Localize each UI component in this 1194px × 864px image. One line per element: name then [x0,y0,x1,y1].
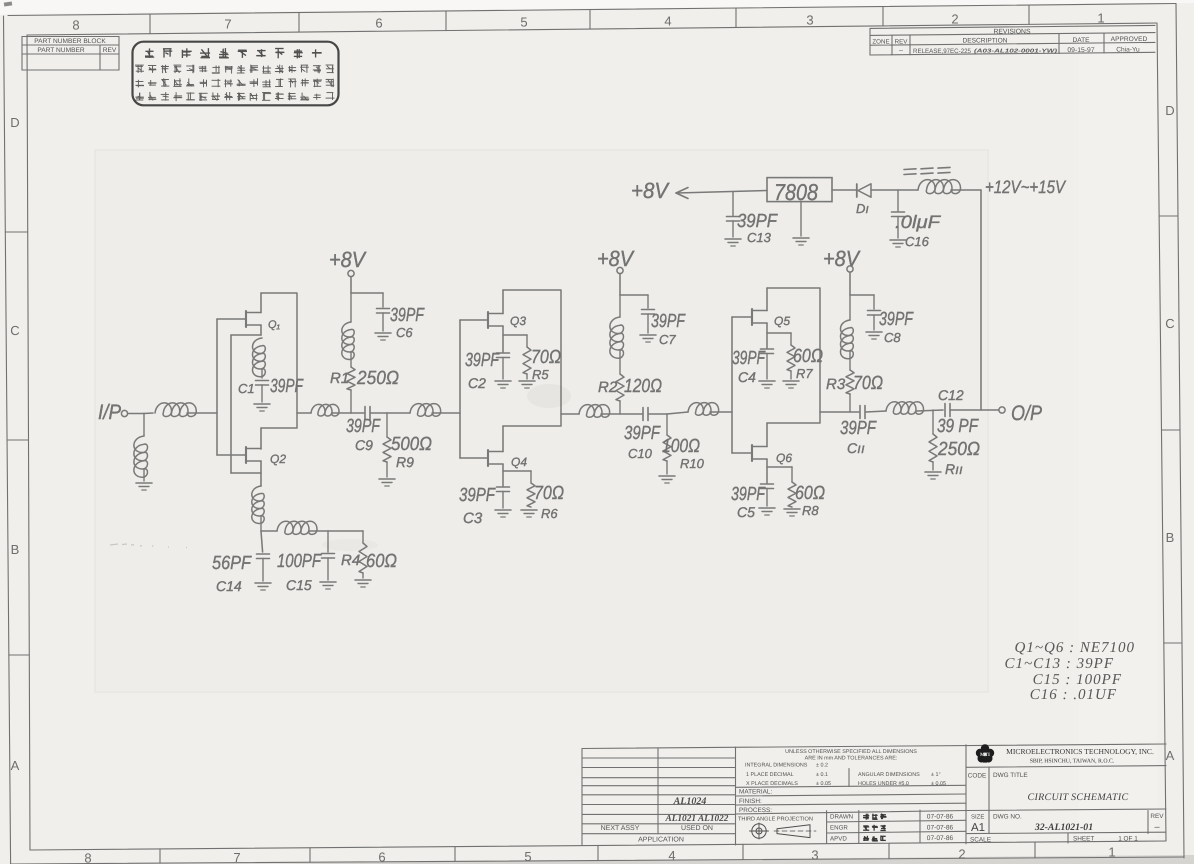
svg-text:+8V: +8V [329,247,367,272]
stage-1 feedback box [261,293,297,428]
svg-text:Q₁: Q₁ [268,319,281,331]
svg-text:70Ω: 70Ω [534,483,564,504]
name stamp apvd (CJK) [863,836,869,841]
capacitor C16 .01uF [897,190,899,211]
capacitor C7 39PF [642,309,655,311]
svg-text:R6: R6 [541,506,558,521]
inductor Q2 source [252,486,264,524]
+8V terminal stage 2 [617,267,623,273]
sheet outer border [8,4,1176,16]
ground for C4 [759,380,775,382]
svg-text:INTEGRAL DIMENSIONS: INTEGRAL DIMENSIONS [745,763,808,769]
svg-text:± 0.1: ± 0.1 [816,772,828,778]
wire: coil to R11 node [917,410,943,411]
svg-text:7: 7 [224,17,231,32]
capacitor C13 39PF [732,192,734,216]
transistor Q3 [487,312,489,328]
wire: to C15/R4 [309,530,363,532]
svg-text:I/P: I/P [98,401,121,424]
svg-text:C12: C12 [938,387,964,403]
svg-text:Rıı: Rıı [945,461,963,477]
svg-text:Q4: Q4 [511,455,527,469]
wire: +8V stage3 down / stub to C8 [849,272,851,295]
svg-text:CIRCUIT SCHEMATIC: CIRCUIT SCHEMATIC [1028,792,1129,803]
svg-text:C5: C5 [737,504,755,520]
svg-text:3: 3 [811,848,818,863]
resistor R10 100ohm [666,414,668,435]
part number block table [22,36,119,38]
svg-text:C2: C2 [468,375,486,391]
svg-text:70Ω: 70Ω [531,347,561,368]
wire: Q4 drain to box bottom [502,426,504,452]
svg-text:DWG TITLE: DWG TITLE [993,772,1028,779]
capacitor C14 56PF [257,553,270,555]
ground for C5 [759,507,775,509]
svg-text:CODE: CODE [968,773,986,780]
svg-text:39PF: 39PF [651,311,686,332]
title block right: company section [965,745,967,844]
svg-text:THIRD ANGLE PROJECTION: THIRD ANGLE PROJECTION [738,817,813,823]
capacitor C15 100PF [327,531,329,552]
svg-text:09-15-97: 09-15-97 [1067,47,1094,54]
svg-text:3: 3 [806,13,813,28]
svg-text:SCALE: SCALE [970,836,991,843]
wire: C9 to R9 node [371,412,388,414]
wire: Q6 source down [766,459,768,483]
ground for C6 [375,332,391,334]
wire: Q3 source node [502,326,504,352]
transistor Q6 [751,445,753,461]
svg-text:70Ω: 70Ω [853,373,883,394]
wire: C10 to R10 node [649,413,668,415]
series inductor stage1 out [311,404,339,416]
svg-text:APPROVED: APPROVED [1111,36,1148,43]
zone ticks bottom edge [159,849,161,863]
wire: gate bus stage 3 [731,317,733,453]
svg-text:R3: R3 [826,376,846,393]
svg-text:60Ω: 60Ω [793,346,823,367]
wire: +8V down / stub to C6 [350,277,352,293]
svg-text:4: 4 [664,14,671,29]
O/P terminal [999,407,1005,413]
svg-text:REVISIONS: REVISIONS [993,29,1030,36]
capacitor C2 39PF [497,352,510,354]
wire: Q2 drain to box bottom [260,428,262,449]
resistor R7 60ohm [767,332,791,334]
svg-text:ENGR: ENGR [830,825,848,832]
transistor Q4 [487,450,489,466]
svg-text:1 OF 1: 1 OF 1 [1118,835,1138,842]
scan: gray strip below sheet bottom edge [0,855,1194,864]
svg-text:APVD: APVD [830,835,847,842]
svg-text:100PF: 100PF [277,551,322,572]
ground for 7808 [800,202,802,236]
wire: +12V rail down to output [980,190,982,410]
svg-text:1: 1 [1097,11,1104,26]
svg-text:R4: R4 [341,552,360,569]
wire: Q4 source down [502,464,504,486]
svg-text:6: 6 [375,16,382,31]
svg-text:ZONE: ZONE [872,39,889,46]
svg-text:5: 5 [524,849,531,864]
resistor R8 60ohm [767,466,792,468]
resistor R9 500ohm [386,413,388,437]
svg-text:R8: R8 [802,503,819,518]
ground for R9 [379,478,395,480]
capacitor C11 39PF series [859,406,861,419]
series inductor stage2 out [579,405,610,418]
wire: gate bus stage 2 [459,320,461,458]
svg-text:C15: C15 [286,577,312,593]
stage-3 box [767,288,820,423]
series inductor input line [144,412,153,415]
svg-text:SHEET: SHEET [1073,836,1094,843]
svg-text:C: C [10,323,19,338]
title block: drawn/engr/apvd table [826,811,828,844]
svg-text:Q6: Q6 [776,451,792,465]
svg-text:C1~C13 : 39PF: C1~C13 : 39PF [1005,656,1114,672]
stamp text line 2 (CJK) [135,65,144,73]
svg-text:B: B [1166,530,1175,545]
resistor R1 250ohm [350,352,352,367]
ground for R8 [784,508,800,510]
ground for input shunt inductor [136,482,152,484]
svg-text:NEXT ASSY: NEXT ASSY [601,825,640,832]
svg-text:C15 : 100PF: C15 : 100PF [1033,672,1122,688]
svg-text:8: 8 [72,18,79,33]
stage-2 box [503,290,561,426]
svg-text:UNLESS OTHERWISE SPECIFIED ALL: UNLESS OTHERWISE SPECIFIED ALL DIMENSION… [785,749,917,755]
wire: C11 to coil [866,411,886,412]
svg-text:SIZE: SIZE [971,814,984,821]
svg-text:AL1024: AL1024 [673,796,707,807]
svg-text:500Ω: 500Ω [391,434,432,455]
inductor +8V feed stage 3 [849,295,851,320]
inductor power line [918,180,961,194]
svg-text:REV: REV [895,38,909,45]
ground for C7 [640,334,656,336]
wire: +8V rail to 7808 [677,191,767,194]
zone ticks right edge [1159,215,1178,217]
wire: gate bus stage 1 [216,319,218,455]
svg-text:C7: C7 [659,332,676,347]
svg-text:39PF: 39PF [840,418,877,439]
ground for C13 [725,238,741,240]
MTI logo [976,744,994,762]
ground for C1 [254,403,270,405]
inductor +8V feed stage 2 [619,295,621,317]
capacitor C4 39PF [761,348,774,350]
svg-text:2: 2 [951,12,958,27]
svg-text:MTI: MTI [980,752,990,758]
svg-text:C3: C3 [463,510,483,527]
svg-text:R2: R2 [598,379,618,396]
svg-text:–: – [899,48,903,55]
svg-text:D: D [10,115,19,130]
svg-text:C16: C16 [905,234,930,249]
stamp text line 4 (CJK) [135,93,143,101]
series inductor to stage 3 [667,412,688,414]
svg-text:5: 5 [520,15,527,30]
capacitor C5 39PF [761,483,774,485]
svg-text:C6: C6 [396,325,413,340]
stamp title line (10 CJK glyphs) [145,48,154,58]
capacitor C9 39PF series [364,407,366,420]
svg-text:SBIP, HSINCHU, TAIWAN, R.O.: SBIP, HSINCHU, TAIWAN, R.O.C. [1030,759,1115,765]
transistor Q5 [751,309,753,325]
capacitor C10 39PF series [642,408,644,421]
svg-text:C1: C1 [238,381,255,396]
svg-text:DRAWN: DRAWN [830,814,853,821]
svg-text:250Ω: 250Ω [937,439,980,460]
voltage regulator 7808 [767,178,832,202]
svg-text:39PF: 39PF [731,484,766,505]
svg-text:56PF: 56PF [212,553,252,574]
ground for R4 [355,579,371,581]
wire: Q5 source node [766,323,768,348]
wire: Q5 drain to box top [766,288,768,311]
wire: source tie line Q1-Q2 [230,335,232,473]
wire: D1 to C16 node [871,189,918,191]
wire: Q6 drain to box bottom [766,423,768,447]
svg-text:39PF: 39PF [459,485,496,506]
svg-text:+8V: +8V [597,246,635,271]
svg-text:X PLACE DECIMALS: X PLACE DECIMALS [746,781,798,787]
svg-text:60Ω: 60Ω [795,483,825,504]
resistor R6 70ohm [503,470,531,472]
svg-text:39PF: 39PF [732,348,766,369]
wire: Q1 drain to box top [260,293,262,313]
svg-text:C14: C14 [216,578,242,594]
ground for R7 [783,380,799,382]
svg-text:(A03-AL102-0001-YW): (A03-AL102-0001-YW) [974,48,1057,55]
svg-text:39PF: 39PF [737,211,778,232]
ground for C16 [890,239,906,241]
svg-text:C: C [1165,316,1174,331]
capacitor C1 39PF [256,380,269,382]
svg-text:C16 : .01UF: C16 : .01UF [1030,687,1117,703]
wire: +8V stage2 down / stub to C7 [619,274,621,295]
svg-text:4: 4 [668,848,675,863]
faint pencil smudge marks left [110,544,187,548]
transistor Q1 [245,311,247,327]
zone ticks top edge [149,14,151,34]
diode D1 [856,184,858,197]
ground for C14 [255,582,271,584]
resistor R5 70ohm [503,334,527,336]
svg-text:A: A [11,758,20,773]
svg-text:.0lμF: .0lμF [895,212,941,232]
svg-text:39PF: 39PF [270,376,304,397]
svg-text:± 1°: ± 1° [931,772,941,778]
svg-text:07-07-86: 07-07-86 [927,824,954,831]
chinese intellectual-property stamp box [133,42,339,106]
scan: light strip above sheet top edge [0,0,1194,15]
svg-text:R10: R10 [680,456,705,471]
svg-text:PART NUMBER: PART NUMBER [37,47,85,54]
svg-text:R7: R7 [796,366,813,381]
eraser smudge 1 [527,384,571,408]
eraser smudge 2 [322,539,378,551]
svg-text:Dı: Dı [856,201,869,216]
svg-text:MICROELECTRONICS TECHNOLOGY,: MICROELECTRONICS TECHNOLOGY, INC. [1006,747,1154,756]
svg-text:MATERIAL:: MATERIAL: [739,789,772,796]
svg-text:DWG NO.: DWG NO. [993,814,1022,821]
svg-text:APPLICATION: APPLICATION [638,837,684,844]
svg-text:6: 6 [378,850,385,864]
svg-text:+12V~+15V: +12V~+15V [985,177,1067,197]
inductor bias stage1 [277,521,317,534]
svg-text:7808: 7808 [774,179,818,205]
ferrite bead dashes [904,168,916,171]
ground for R5 [519,380,535,382]
+8V terminal stage 3 [847,266,853,272]
svg-text:A1: A1 [971,822,985,834]
shunt inductor at input [143,414,145,437]
svg-text:DESCRIPTION: DESCRIPTION [962,38,1007,45]
ground for C3 [495,509,511,511]
svg-text:FINISH:: FINISH: [739,798,762,805]
capacitor C8 39PF [868,310,881,312]
svg-text:D: D [1165,103,1174,118]
svg-text:07-07-86: 07-07-86 [927,813,954,820]
scan: dark speck top-left corner [4,1,12,6]
svg-text:Q2: Q2 [270,452,286,466]
svg-text:1: 1 [1108,845,1115,860]
svg-text:Q1~Q6 : NE7100: Q1~Q6 : NE7100 [1015,640,1135,656]
svg-text:O/P: O/P [1011,402,1042,425]
svg-text:RELEASE,97EC-225: RELEASE,97EC-225 [913,48,971,55]
title block outline [582,744,1166,749]
svg-text:60Ω: 60Ω [366,551,397,572]
svg-text:39PF: 39PF [624,423,661,444]
wire: 7808 to D1 [832,189,856,191]
resistor R2 120ohm [619,350,621,374]
svg-text:PART NUMBER BLOCK: PART NUMBER BLOCK [34,38,106,45]
ground for C2 [495,380,511,382]
resistor R3 70ohm [849,352,851,370]
svg-text:REV: REV [1150,813,1164,820]
sheet inner border [27,23,1157,35]
svg-text:+8V: +8V [631,178,670,203]
wire: Q3 drain to box top [502,290,504,314]
name stamp engr (CJK) [863,825,869,830]
svg-text:REV: REV [103,47,117,54]
wire: Q1 source node [260,325,262,335]
scan band right side [1079,26,1157,838]
revisions table [870,25,1155,28]
wire: stage1 output [297,412,311,414]
svg-text:39PF: 39PF [879,309,914,330]
svg-text:1 PLACE DECIMAL: 1 PLACE DECIMAL [746,772,794,778]
svg-text:39PF: 39PF [346,416,381,437]
wire: stage3 output [820,411,859,413]
stamp text line 3 (CJK) [135,80,144,88]
svg-text:AL1021 AL1022: AL1021 AL1022 [665,814,729,824]
svg-text:Cıı: Cıı [847,440,865,456]
+8V terminal stage 1 [348,270,354,276]
wire: input to shunt node [128,413,144,415]
svg-text:+8V: +8V [823,246,861,271]
svg-text:Q5: Q5 [774,314,790,328]
svg-text:A: A [1166,748,1175,763]
svg-text:39PF: 39PF [390,305,425,326]
capacitor C12 39PF series [944,404,946,417]
resistor R4 60ohm [362,531,364,543]
svg-text:R5: R5 [532,367,549,382]
I/P terminal [121,410,127,416]
svg-text:–: – [1154,822,1159,832]
svg-text:C9: C9 [355,437,373,453]
svg-text:39PF: 39PF [465,350,500,371]
zone ticks left edge [5,231,27,233]
svg-text:± 0.2: ± 0.2 [816,763,828,769]
svg-text:DATE: DATE [1072,37,1090,44]
inductor in C1 branch [252,338,265,377]
transistor Q2 [245,447,247,463]
wire: Q2 source down [260,461,262,486]
ground for R6 [521,509,537,511]
svg-text:07-07-86: 07-07-86 [927,835,954,842]
series inductor to stage 2 [387,412,410,414]
wire: stage2 output [561,413,579,415]
ground for C8 [866,331,882,333]
svg-text:USED ON: USED ON [681,825,713,832]
ground for R10 [659,475,675,477]
wire: inductor to +12V corner [951,189,981,191]
svg-text:C8: C8 [884,330,901,345]
svg-text:C4: C4 [738,369,756,385]
inductor +8V feed stage 1 [350,293,352,322]
wire: C12 to O/P [950,409,999,411]
svg-text:8: 8 [84,851,91,864]
title block: material/finish/process rows [736,785,967,787]
subtle pencil-smudge veil over schematic area [96,151,987,691]
resistor R11 250ohm [932,410,934,434]
ground for C15 [320,581,336,583]
svg-text:ANGULAR DIMENSIONS: ANGULAR DIMENSIONS [858,772,920,778]
svg-text:R9: R9 [396,454,414,470]
svg-text:39 PF: 39 PF [937,416,979,437]
svg-text:R1: R1 [330,370,349,387]
svg-text:250Ω: 250Ω [356,368,399,389]
svg-text:32-AL1021-01: 32-AL1021-01 [1034,822,1093,833]
svg-text:ARE IN mm AND TOLERANCES ARE:: ARE IN mm AND TOLERANCES ARE: [805,756,898,762]
svg-text:C10: C10 [628,446,653,461]
wire: inductor to Q1/Q2 gate line [187,412,217,414]
svg-text:2: 2 [958,847,965,862]
faint paste-up region outline [95,150,988,692]
wire: bias node stage1 [261,530,277,532]
svg-text:120Ω: 120Ω [624,376,662,397]
wire: R1 node to C9 [351,412,365,414]
series inductor output [886,402,924,414]
svg-text:Chia-Yu: Chia-Yu [1116,47,1140,54]
svg-text:7: 7 [233,850,240,864]
svg-text:100Ω: 100Ω [662,436,700,457]
svg-text:C13: C13 [747,230,772,245]
capacitor C6 39PF [377,308,390,310]
svg-text:PROCESS:: PROCESS: [739,807,772,814]
name stamp drawn (CJK) [863,814,869,820]
svg-text:Q3: Q3 [510,314,526,328]
ground for R11 [925,471,941,473]
capacitor C3 39PF [497,486,510,488]
svg-text:B: B [11,542,20,557]
